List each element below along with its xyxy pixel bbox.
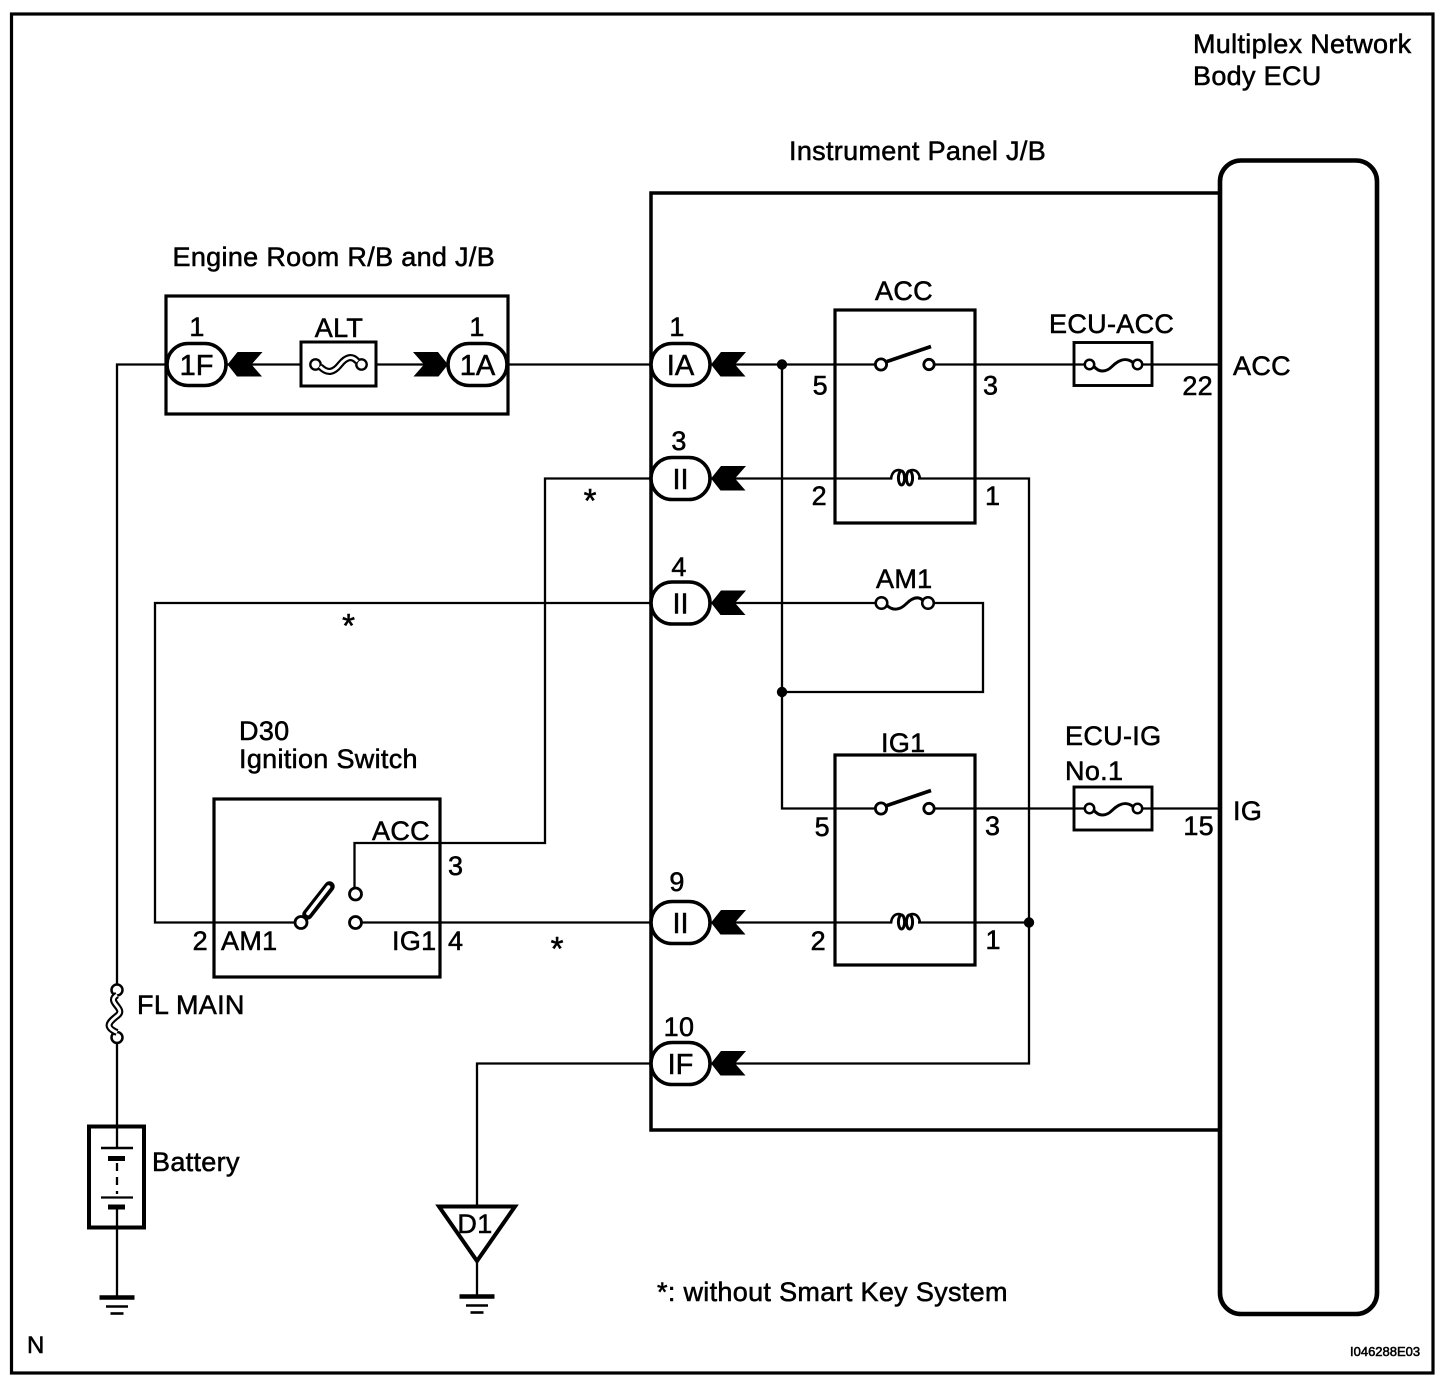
fusible link FL MAIN <box>112 985 123 996</box>
svg-text:ACC: ACC <box>372 816 430 846</box>
relay ACC box <box>835 310 975 523</box>
relay IG1 coil <box>891 914 920 923</box>
wire: ECU-ACC fuse to ECU pin 22 <box>1137 363 1221 365</box>
junction node at AM1 loop <box>777 687 787 697</box>
svg-text:Ignition Switch: Ignition Switch <box>239 744 418 774</box>
svg-text:D30: D30 <box>239 716 290 746</box>
wire: II4 to D30 AM1 pin 2 <box>155 603 652 923</box>
relay ACC switch <box>887 347 931 362</box>
svg-text:1F: 1F <box>180 350 214 382</box>
svg-text:FL MAIN: FL MAIN <box>137 990 245 1020</box>
svg-text:D1: D1 <box>457 1209 492 1239</box>
wire: II4 arrow to AM1 fuse <box>709 602 877 604</box>
connector IF pin 10 <box>651 1043 710 1085</box>
svg-text:IF: IF <box>668 1049 694 1081</box>
svg-text:IG: IG <box>1233 796 1262 826</box>
wire: ECU-IG fuse to ECU pin 15 <box>1137 807 1221 809</box>
svg-text:AM1: AM1 <box>221 926 277 956</box>
Multiplex Network Body ECU body <box>1220 161 1377 1315</box>
svg-text:II: II <box>672 589 688 621</box>
svg-text:1: 1 <box>985 481 1000 511</box>
svg-text:II: II <box>672 464 688 496</box>
svg-text:15: 15 <box>1183 811 1214 841</box>
svg-text:2: 2 <box>811 926 826 956</box>
svg-text:5: 5 <box>815 812 830 842</box>
svg-text:IG1: IG1 <box>392 926 436 956</box>
svg-text:2: 2 <box>812 481 827 511</box>
svg-text:No.1: No.1 <box>1065 756 1123 786</box>
svg-text:*: * <box>584 482 597 519</box>
svg-text:3: 3 <box>671 426 686 456</box>
svg-text:5: 5 <box>813 371 828 401</box>
wire: II9 arrow to IG1 coil pin 2 <box>709 921 892 923</box>
wire: ALT to 1A <box>375 363 449 365</box>
connector D1 <box>439 1207 515 1262</box>
battery <box>89 1127 144 1228</box>
connector 1A <box>448 344 507 386</box>
connector II pin 9 <box>651 902 710 944</box>
svg-text:4: 4 <box>671 552 686 582</box>
arrow into IA <box>711 352 746 377</box>
D30 IG1 contact <box>350 917 362 929</box>
arrow into II3 <box>711 466 746 491</box>
svg-text:1: 1 <box>469 312 484 342</box>
svg-text:*: * <box>342 607 355 644</box>
wire: battery to ground <box>116 1208 118 1297</box>
svg-text:10: 10 <box>664 1012 695 1042</box>
svg-text:ACC: ACC <box>875 276 933 306</box>
ground below D1 <box>460 1294 495 1299</box>
svg-text:*: * <box>551 930 564 967</box>
svg-text:Engine Room R/B and J/B: Engine Room R/B and J/B <box>173 242 496 272</box>
arrow into 1A <box>413 352 448 377</box>
svg-text:Body ECU: Body ECU <box>1193 61 1322 91</box>
wire: 1F to ALT <box>225 363 302 365</box>
relay IG1 box <box>835 755 975 965</box>
wire: AM1 fuse loop to IA junction column <box>782 603 983 692</box>
fuse ECU-IG No.1 <box>1074 787 1152 830</box>
ignition switch D30 box <box>214 799 440 977</box>
wire: ACC coil pin 1 down to IG1 coil junction <box>709 479 1029 1064</box>
arrow into II9 <box>711 910 746 935</box>
svg-text:ECU-IG: ECU-IG <box>1065 721 1161 751</box>
connector II pin 3 <box>651 458 710 500</box>
svg-text:1: 1 <box>986 925 1001 955</box>
wire: II3 to D30 ACC pin 3 <box>355 479 653 890</box>
relay ACC coil <box>891 470 920 479</box>
arrow into 1F <box>228 352 263 377</box>
svg-text:3: 3 <box>448 851 463 881</box>
connector 1F <box>167 344 226 386</box>
wire: battery positive up-left vertical <box>117 365 168 986</box>
relay IG1 switch <box>887 791 931 806</box>
svg-text:*: without Smart Key System: *: without Smart Key System <box>657 1277 1008 1307</box>
svg-text:AM1: AM1 <box>876 564 932 594</box>
wire: IG1 coil pin 1 to junction <box>918 921 1029 923</box>
svg-text:1: 1 <box>189 312 204 342</box>
wire: II3 arrow to ACC coil pin 2 <box>709 477 892 479</box>
svg-text:3: 3 <box>985 811 1000 841</box>
svg-text:1: 1 <box>669 312 684 342</box>
svg-text:Battery: Battery <box>152 1147 240 1177</box>
ground below battery <box>100 1295 135 1300</box>
wire: FL MAIN to battery <box>116 1042 118 1127</box>
wire: 1A to IA <box>505 363 652 365</box>
Engine Room R/B and J/B box <box>166 296 508 414</box>
junction node at IA row <box>777 359 787 369</box>
junction node at IG1 coil row <box>1024 917 1034 927</box>
arrow into IF <box>711 1051 746 1076</box>
svg-text:N: N <box>27 1332 44 1359</box>
wire: IA to ACC relay pin 5 <box>709 363 876 365</box>
svg-text:4: 4 <box>448 926 463 956</box>
svg-text:I046288E03: I046288E03 <box>1350 1344 1420 1359</box>
svg-text:IG1: IG1 <box>881 728 925 758</box>
svg-text:2: 2 <box>193 926 208 956</box>
svg-text:3: 3 <box>983 371 998 401</box>
fuse ECU-ACC <box>1074 343 1152 386</box>
fuse ALT <box>301 342 376 386</box>
wire: IF to D1 <box>477 1064 652 1208</box>
svg-text:ACC: ACC <box>1233 351 1291 381</box>
Instrument Panel J/B box <box>651 193 1220 1130</box>
arrow into II4 <box>711 591 746 616</box>
connector IA <box>651 344 710 386</box>
connector II pin 4 <box>651 582 710 624</box>
svg-text:Instrument Panel J/B: Instrument Panel J/B <box>789 136 1046 166</box>
fuse AM1 <box>876 597 888 609</box>
D30 common contact <box>295 917 307 929</box>
wire: D1 apex to ground <box>476 1261 478 1297</box>
svg-text:II: II <box>672 908 688 940</box>
wire: ACC relay switch to ECU-ACC fuse <box>934 363 1090 365</box>
svg-text:9: 9 <box>669 867 684 897</box>
D30 key lever <box>308 887 330 915</box>
svg-text:IA: IA <box>667 350 695 382</box>
svg-text:ALT: ALT <box>315 313 363 343</box>
wire: IG1 switch to ECU-IG fuse <box>934 807 1090 809</box>
svg-text:ECU-ACC: ECU-ACC <box>1049 309 1174 339</box>
wire: D30 IG1 pin 4 to II9 <box>362 921 652 923</box>
wire: vertical from IA junction down to IG1 pin 5 <box>782 365 876 809</box>
svg-text:22: 22 <box>1182 371 1213 401</box>
svg-text:1A: 1A <box>460 350 496 382</box>
svg-text:Multiplex Network: Multiplex Network <box>1193 29 1412 59</box>
